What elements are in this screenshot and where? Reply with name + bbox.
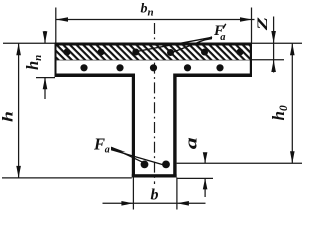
- svg-text:Z: Z: [254, 17, 270, 31]
- svg-text:h: h: [0, 111, 16, 122]
- svg-text:a: a: [183, 137, 201, 149]
- svg-text:a: a: [105, 144, 110, 155]
- svg-text:F: F: [93, 134, 105, 153]
- svg-text:a: a: [220, 32, 225, 43]
- svg-text:b: b: [151, 187, 159, 204]
